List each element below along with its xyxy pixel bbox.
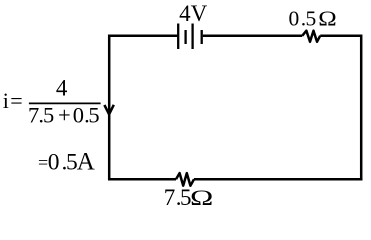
svg-text:0.5: 0.5: [289, 7, 317, 31]
battery B1 short plate: [184, 30, 186, 44]
svg-text:7.5: 7.5: [164, 185, 192, 210]
svg-text:=: =: [38, 153, 48, 173]
svg-text:Ω: Ω: [190, 185, 213, 209]
battery B1 long plate right: [191, 24, 193, 50]
svg-text:Ω: Ω: [318, 7, 336, 31]
svg-text:4V: 4V: [179, 1, 208, 26]
wire bottom-right segment: [194, 178, 362, 181]
wire bottom-left segment: [108, 178, 176, 181]
battery B1 short plate right: [201, 30, 203, 44]
fraction bar: [29, 102, 101, 104]
resistor R1 zigzag: [302, 31, 320, 42]
battery B1 long plate left: [177, 24, 179, 50]
wire left side: [108, 34, 111, 180]
svg-text:i=: i=: [3, 88, 24, 113]
svg-text:4: 4: [56, 75, 68, 100]
resistor R2 zigzag: [176, 173, 194, 186]
svg-text:7.5+0.5: 7.5+0.5: [28, 103, 100, 128]
current arrow head: [104, 105, 113, 115]
wire top-left segment: [109, 34, 177, 37]
wire top-right segment: [320, 34, 361, 37]
wire top-middle segment: [203, 34, 302, 37]
svg-text:0.5A: 0.5A: [48, 149, 95, 176]
wire right side: [360, 34, 363, 180]
